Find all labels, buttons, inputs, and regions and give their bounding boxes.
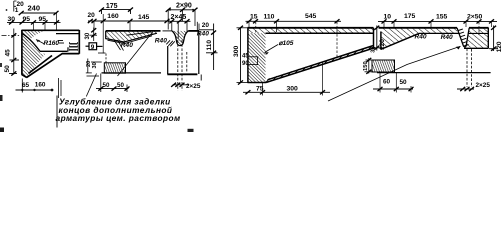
svg-text:50: 50 bbox=[117, 82, 124, 89]
svg-text:150: 150 bbox=[363, 61, 369, 71]
L1 gutter surface R160 bbox=[22, 34, 68, 52]
svg-text:145: 145 bbox=[138, 14, 150, 21]
svg-text:2×25: 2×25 bbox=[186, 83, 201, 90]
svg-text:R40: R40 bbox=[441, 34, 453, 41]
svg-text:9: 9 bbox=[91, 44, 95, 51]
wall top line under L2 bbox=[102, 72, 162, 74]
vertical dim 300 left bbox=[240, 28, 242, 83]
V-notch hatch fill bbox=[172, 31, 188, 46]
RS2 left rise bbox=[381, 32, 419, 50]
stray hatch strokes bbox=[114, 40, 124, 51]
svg-text:545: 545 bbox=[305, 13, 317, 20]
RS2 slab bottom bbox=[419, 32, 459, 34]
svg-text:50: 50 bbox=[103, 82, 110, 89]
L2 wedge hatch under top bbox=[106, 31, 157, 42]
svg-text:50: 50 bbox=[400, 79, 408, 86]
RS2 top bbox=[379, 27, 489, 29]
dim 120 at RS1 end bbox=[376, 26, 378, 51]
RS1 rib hatch bbox=[248, 33, 266, 82]
svg-text:R40: R40 bbox=[121, 42, 133, 49]
RS1 outline bbox=[248, 27, 374, 29]
note left border line bbox=[56, 96, 58, 128]
svg-text:240: 240 bbox=[28, 4, 41, 13]
svg-text:45: 45 bbox=[5, 49, 12, 57]
svg-text:R40: R40 bbox=[155, 38, 167, 45]
L2 top line bbox=[106, 30, 200, 32]
long diagonal line D bbox=[118, 32, 153, 76]
funnel walls and bottom bbox=[168, 31, 199, 74]
wall top line right bbox=[377, 72, 491, 74]
svg-text:160: 160 bbox=[107, 13, 119, 20]
note text 3 lines bbox=[56, 97, 181, 124]
svg-text:50: 50 bbox=[4, 65, 11, 73]
notch leader strokes bbox=[166, 40, 175, 46]
RS2 end bearing bbox=[464, 28, 488, 49]
svg-text:арматуры цем. раствором: арматуры цем. раствором bbox=[56, 113, 181, 123]
RS2 notch bbox=[457, 28, 469, 47]
extension lines left dims bbox=[34, 14, 57, 30]
svg-text:120: 120 bbox=[496, 41, 502, 52]
dashed rebar pair bbox=[178, 40, 187, 91]
left vertical dim line bbox=[13, 29, 15, 75]
L2 wedge underside bbox=[106, 31, 157, 44]
svg-text:R160: R160 bbox=[44, 40, 60, 47]
svg-text:300: 300 bbox=[233, 45, 240, 57]
mortar recess block bbox=[104, 63, 125, 73]
svg-text:10: 10 bbox=[384, 14, 392, 21]
L1 hatch body bbox=[22, 30, 47, 77]
svg-text:30: 30 bbox=[85, 32, 91, 39]
dim 120 right end bbox=[493, 26, 495, 52]
mortar recess block right bbox=[372, 60, 395, 72]
V-notch walls bbox=[172, 31, 188, 46]
svg-text:2×25: 2×25 bbox=[476, 82, 491, 89]
dim 20 bracket top-left bbox=[14, 1, 17, 12]
2x25 right with dashed bars bbox=[467, 49, 472, 88]
2x25 mini dim bbox=[173, 84, 190, 86]
svg-text:175: 175 bbox=[106, 3, 118, 10]
svg-text:155: 155 bbox=[436, 14, 448, 21]
svg-text:30: 30 bbox=[371, 47, 377, 53]
svg-text:20: 20 bbox=[88, 12, 96, 19]
long leader right bbox=[328, 46, 461, 101]
RS1 slab hatch bbox=[248, 28, 374, 33]
svg-text:175: 175 bbox=[404, 13, 416, 20]
leader from note text to recess bbox=[86, 74, 96, 97]
RS2 slab hatch bbox=[381, 28, 419, 50]
extension lines L2 top dims bbox=[94, 14, 130, 54]
svg-text:300: 300 bbox=[287, 85, 299, 92]
rebar bars in gutter bbox=[70, 44, 78, 50]
svg-text:⌀105: ⌀105 bbox=[279, 40, 294, 47]
svg-text:160: 160 bbox=[35, 82, 46, 89]
svg-text:2×50: 2×50 bbox=[467, 14, 483, 21]
svg-text:110: 110 bbox=[206, 40, 213, 51]
L1 outline bbox=[22, 30, 80, 78]
edge specks bbox=[0, 95, 3, 101]
boxed 9 mark bbox=[86, 43, 103, 50]
extension lines 2x45 bbox=[168, 10, 199, 39]
svg-text:20: 20 bbox=[202, 22, 210, 29]
svg-text:R40: R40 bbox=[415, 33, 427, 40]
svg-text:110: 110 bbox=[264, 14, 275, 21]
axis dash-dot line bbox=[2, 34, 21, 36]
vertical dim 150 bbox=[365, 58, 374, 74]
svg-text:1: 1 bbox=[15, 7, 19, 14]
svg-text:60: 60 bbox=[383, 79, 391, 86]
lip line under top right part bbox=[56, 33, 79, 35]
svg-text:65: 65 bbox=[22, 82, 30, 89]
hatch ticks along hypotenuse bbox=[266, 46, 372, 82]
svg-text:30: 30 bbox=[92, 62, 98, 68]
